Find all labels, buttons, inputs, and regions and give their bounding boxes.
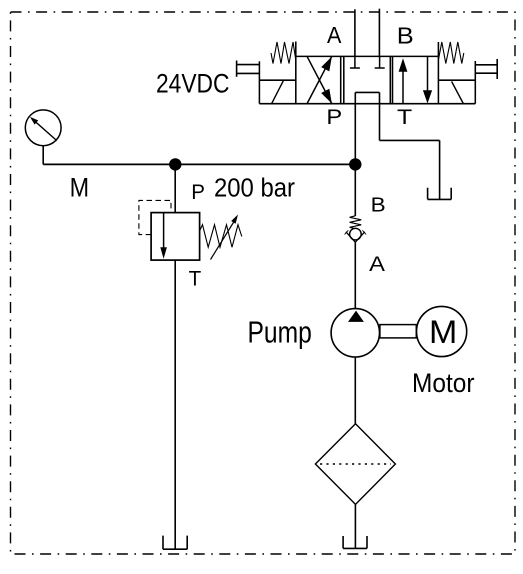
svg-text:A: A: [369, 252, 386, 276]
svg-text:T: T: [189, 266, 202, 290]
svg-text:M: M: [70, 173, 90, 203]
svg-text:A: A: [327, 22, 342, 48]
svg-text:P: P: [191, 181, 205, 204]
svg-text:M: M: [429, 314, 457, 350]
svg-text:Pump: Pump: [248, 316, 312, 350]
svg-text:200 bar: 200 bar: [214, 172, 295, 202]
svg-text:B: B: [397, 23, 414, 49]
svg-text:24VDC: 24VDC: [156, 68, 229, 98]
svg-text:T: T: [397, 106, 412, 129]
svg-text:Motor: Motor: [412, 368, 475, 398]
svg-text:B: B: [371, 195, 386, 217]
svg-text:P: P: [326, 106, 342, 129]
